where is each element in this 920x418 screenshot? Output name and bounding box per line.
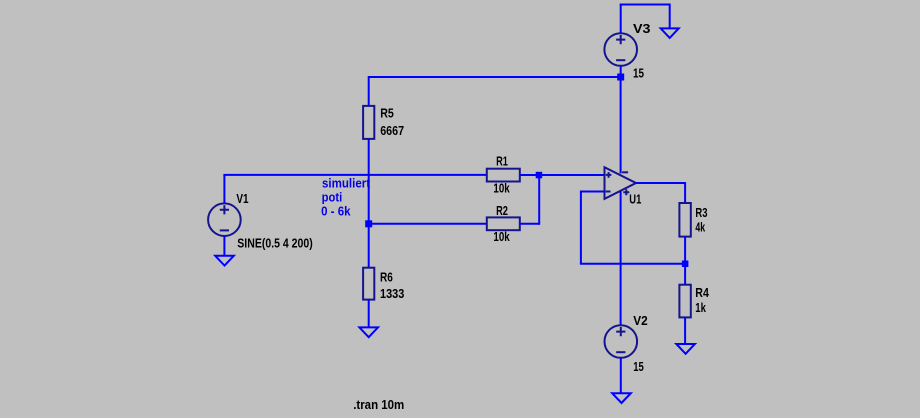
ground (R6): [359, 327, 378, 337]
wire U1 bottom power to V2: [620, 191, 622, 326]
wire R2 up to R1 node: [538, 175, 540, 225]
wire node to op-amp input: [539, 174, 605, 176]
wire R5 top stub: [368, 76, 370, 106]
svg-text:V1: V1: [236, 191, 248, 206]
resistor R4: [679, 285, 690, 318]
U1 inverting input pin -: [606, 191, 611, 193]
node R3/R4 junction: [682, 261, 689, 268]
resistor R5: [363, 106, 374, 139]
node 15-rail junction: [617, 74, 624, 81]
wire V3 top stub: [620, 5, 622, 34]
svg-text:poti: poti: [322, 190, 343, 205]
U1 triangle body: [605, 167, 636, 199]
U1 non-inverting input pin +: [606, 172, 612, 178]
ground (V3): [661, 28, 679, 38]
svg-text:U1: U1: [629, 192, 641, 207]
wire R4 top stub: [684, 264, 686, 285]
op-amp U1: [605, 167, 636, 199]
wire V3 bottom stub: [620, 66, 622, 77]
resistor R2: [487, 217, 520, 230]
svg-text:R3: R3: [695, 205, 707, 220]
wire divider node to R2: [369, 223, 487, 225]
svg-text:SINE(0.5 4 200): SINE(0.5 4 200): [237, 236, 312, 251]
voltage source V1: [208, 203, 241, 236]
wire feedback from inverting input: [581, 191, 605, 193]
wire R4 bottom stub: [684, 317, 686, 344]
svg-text:15: 15: [633, 66, 644, 81]
resistor R6: [363, 268, 374, 300]
svg-text:1333: 1333: [380, 286, 404, 301]
svg-text:R4: R4: [695, 285, 709, 300]
wire V1 to R1: [223, 174, 486, 176]
node divider junction: [365, 220, 372, 227]
svg-text:4k: 4k: [695, 220, 705, 235]
svg-text:10k: 10k: [493, 229, 510, 244]
ground (R4): [676, 344, 695, 354]
svg-text:0 - 6k: 0 - 6k: [321, 204, 351, 219]
voltage source V3: [604, 33, 637, 66]
wire top rail horizontal: [369, 76, 621, 78]
wire ground drop: [669, 4, 671, 29]
wire R1 right stub: [520, 174, 539, 176]
wire R6 bottom stub: [368, 300, 370, 328]
wire V1 top stub: [223, 175, 225, 204]
svg-text:simuliert: simuliert: [322, 175, 371, 190]
wire output down to R3: [684, 182, 686, 203]
wire node down to R6: [368, 224, 370, 268]
svg-text:R5: R5: [380, 106, 394, 121]
resistor R3: [679, 203, 690, 237]
svg-text:R6: R6: [380, 270, 393, 285]
svg-text:R2: R2: [496, 203, 508, 218]
svg-text:.tran 10m: .tran 10m: [353, 397, 404, 412]
wire R2 right stub: [520, 223, 539, 225]
svg-text:1k: 1k: [695, 300, 706, 315]
svg-text:R1: R1: [496, 154, 508, 169]
resistor R1: [487, 169, 520, 182]
wire V1 bottom stub: [223, 236, 225, 256]
wire V3 to ground horizontal: [620, 4, 670, 6]
svg-text:15: 15: [633, 359, 644, 374]
svg-text:V2: V2: [633, 313, 648, 328]
U1 negative supply pin -: [622, 171, 628, 173]
ground (V1): [215, 256, 234, 266]
U1 positive supply pin +: [623, 189, 629, 195]
svg-text:6667: 6667: [380, 123, 404, 138]
wire R3 bottom stub: [684, 237, 686, 264]
wire U1 output: [636, 182, 685, 184]
node R1/R2 junction: [536, 172, 543, 179]
svg-text:10k: 10k: [493, 180, 510, 195]
wire feedback left leg: [580, 191, 582, 264]
wire R5 bottom to node: [368, 139, 370, 224]
wire feedback bottom horizontal: [580, 263, 685, 265]
voltage source V2: [605, 325, 638, 358]
wire U1 top power: [620, 77, 622, 174]
wire V2 bottom stub: [620, 358, 622, 393]
ground (V2): [612, 393, 631, 403]
svg-text:V3: V3: [633, 21, 651, 36]
